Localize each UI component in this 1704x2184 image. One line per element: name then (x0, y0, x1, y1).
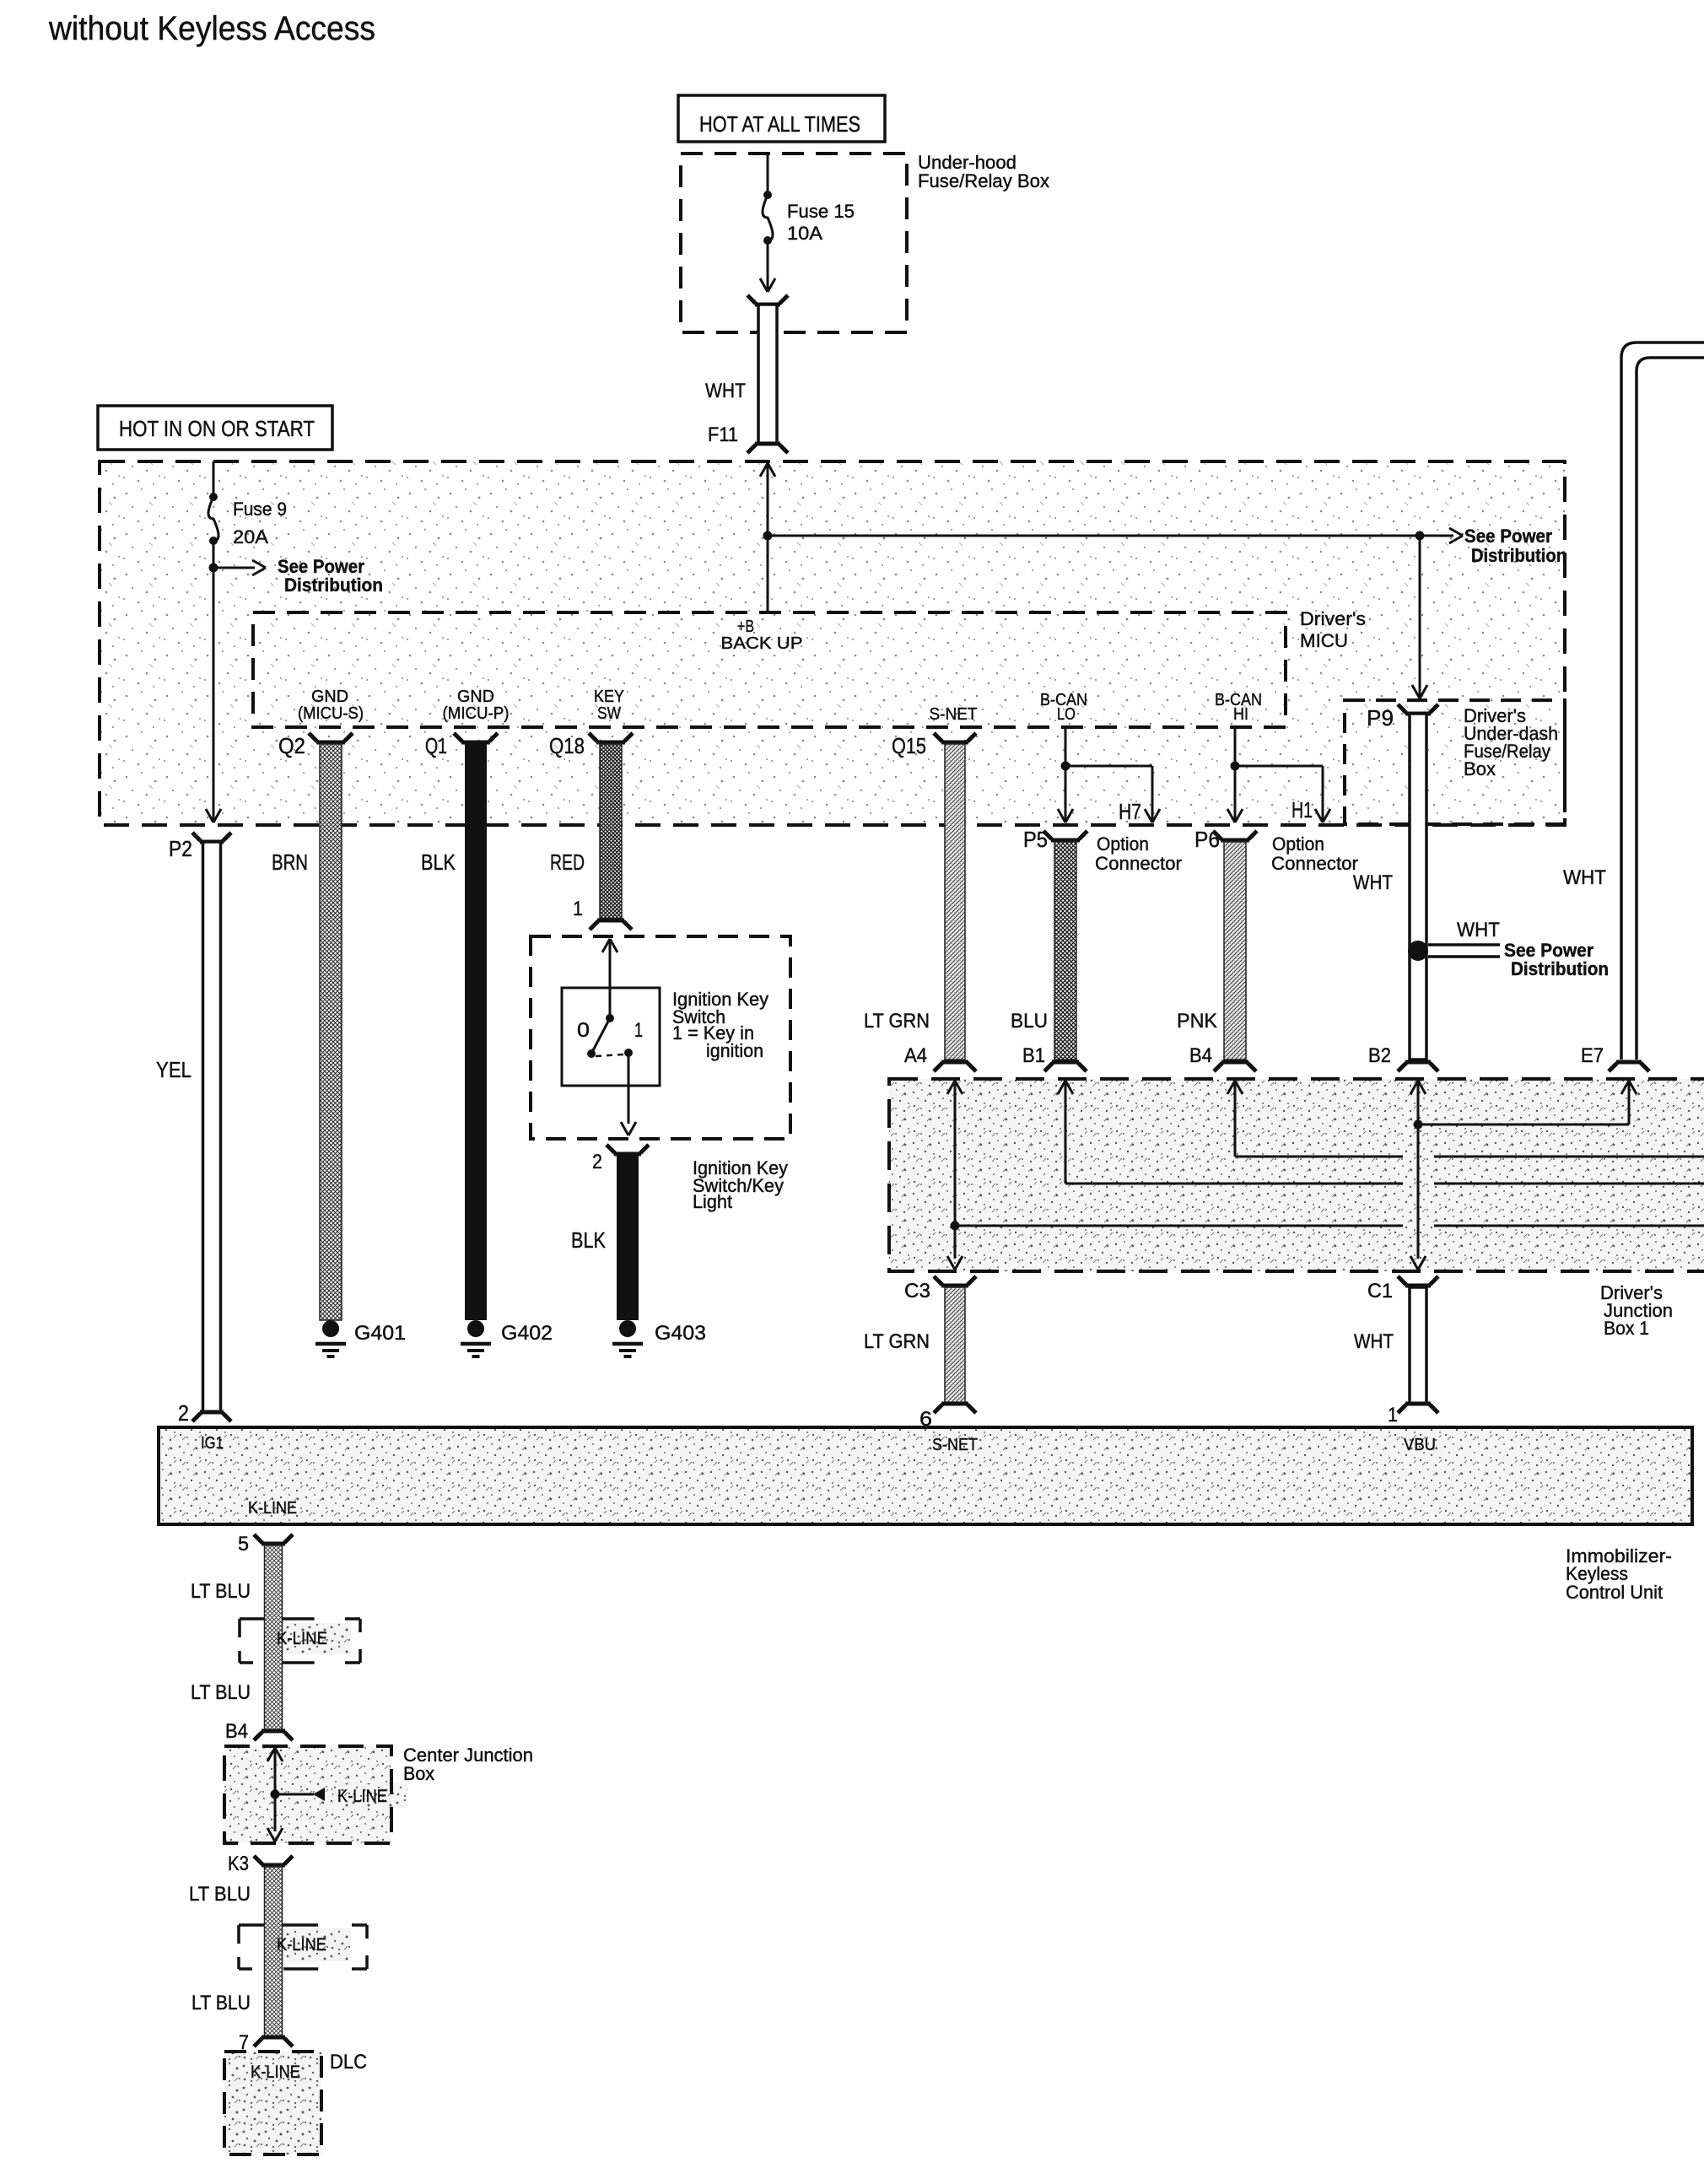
svg-text:C1: C1 (1367, 1280, 1393, 1302)
svg-text:LT GRN: LT GRN (864, 1330, 930, 1353)
svg-text:Q15: Q15 (892, 733, 926, 758)
svg-text:Distribution: Distribution (1511, 958, 1609, 979)
svg-text:YEL: YEL (156, 1057, 191, 1082)
svg-text:(MICU-S): (MICU-S) (298, 704, 364, 723)
svg-text:DLC: DLC (330, 2051, 367, 2073)
svg-text:Connector: Connector (1271, 853, 1358, 874)
svg-text:G401: G401 (354, 1322, 406, 1345)
svg-text:LT BLU: LT BLU (191, 1681, 251, 1704)
svg-text:Box 1: Box 1 (1604, 1318, 1649, 1339)
svg-text:MICU: MICU (1300, 630, 1348, 651)
svg-text:LT GRN: LT GRN (864, 1010, 930, 1033)
svg-text:KEY: KEY (594, 688, 624, 706)
svg-text:LT BLU: LT BLU (191, 1992, 251, 2014)
svg-text:HOT AT ALL TIMES: HOT AT ALL TIMES (699, 111, 860, 137)
svg-text:GND: GND (457, 688, 494, 706)
svg-text:P9: P9 (1367, 705, 1394, 731)
svg-text:0: 0 (577, 1019, 590, 1042)
svg-text:G403: G403 (655, 1322, 706, 1345)
svg-text:Driver's: Driver's (1300, 608, 1366, 629)
svg-text:BLK: BLK (421, 849, 456, 875)
svg-text:See Power: See Power (1464, 526, 1552, 547)
svg-text:B2: B2 (1368, 1044, 1391, 1067)
svg-text:1: 1 (1388, 1404, 1398, 1426)
svg-text:GND: GND (311, 688, 348, 706)
svg-text:LT BLU: LT BLU (189, 1883, 251, 1906)
svg-text:6: 6 (919, 1408, 932, 1431)
svg-text:Box: Box (1464, 758, 1496, 779)
svg-text:2: 2 (178, 1400, 189, 1426)
svg-text:IG1: IG1 (201, 1434, 224, 1453)
svg-text:WHT: WHT (1353, 871, 1393, 894)
svg-text:Fuse 9: Fuse 9 (233, 499, 287, 520)
svg-text:WHT: WHT (705, 380, 746, 402)
svg-text:WHT: WHT (1354, 1330, 1394, 1353)
svg-text:Distribution: Distribution (1471, 545, 1566, 566)
svg-text:Option: Option (1097, 833, 1149, 855)
svg-text:ignition: ignition (706, 1040, 763, 1061)
svg-text:H1: H1 (1291, 797, 1313, 822)
svg-text:Light: Light (693, 1191, 732, 1212)
svg-text:K-LINE: K-LINE (251, 2063, 300, 2082)
svg-text:1: 1 (634, 1019, 643, 1042)
svg-text:Box: Box (403, 1763, 434, 1784)
svg-text:without Keyless Access: without Keyless Access (48, 10, 375, 47)
svg-text:Control Unit: Control Unit (1566, 1582, 1663, 1603)
svg-text:Distribution: Distribution (284, 574, 383, 596)
svg-text:1: 1 (573, 898, 583, 920)
svg-text:K-LINE: K-LINE (277, 1935, 326, 1955)
svg-text:K3: K3 (228, 1852, 249, 1875)
svg-text:WHT: WHT (1563, 866, 1606, 889)
svg-text:(MICU-P): (MICU-P) (443, 704, 510, 723)
svg-text:P6: P6 (1194, 827, 1220, 852)
svg-text:5: 5 (238, 1533, 249, 1556)
svg-text:K-LINE: K-LINE (248, 1499, 297, 1518)
svg-text:E7: E7 (1581, 1044, 1604, 1067)
svg-text:VBU: VBU (1404, 1436, 1436, 1454)
svg-text:Option: Option (1272, 833, 1324, 855)
svg-text:B4: B4 (1189, 1044, 1212, 1067)
svg-text:K-LINE: K-LINE (337, 1787, 387, 1806)
svg-text:HI: HI (1233, 705, 1248, 724)
svg-text:P2: P2 (169, 836, 192, 861)
svg-text:Q18: Q18 (549, 733, 585, 758)
svg-text:Q1: Q1 (425, 733, 447, 758)
svg-text:G402: G402 (501, 1322, 553, 1345)
svg-text:RED: RED (550, 849, 585, 875)
svg-text:K-LINE: K-LINE (277, 1629, 327, 1648)
svg-text:A4: A4 (904, 1044, 927, 1067)
svg-text:BLU: BLU (1011, 1010, 1048, 1033)
svg-text:LO: LO (1057, 705, 1076, 724)
svg-text:HOT IN ON OR START: HOT IN ON OR START (119, 416, 315, 441)
svg-text:7: 7 (239, 2031, 249, 2054)
svg-text:Q2: Q2 (278, 733, 305, 758)
svg-text:+B: +B (737, 617, 754, 636)
svg-text:LT BLU: LT BLU (191, 1580, 251, 1603)
svg-text:2: 2 (592, 1151, 602, 1173)
svg-text:BACK UP: BACK UP (721, 634, 803, 653)
svg-text:BLK: BLK (571, 1227, 607, 1253)
svg-text:Connector: Connector (1095, 853, 1182, 874)
svg-text:WHT: WHT (1457, 919, 1500, 941)
svg-text:C3: C3 (904, 1280, 930, 1302)
svg-text:10A: 10A (787, 223, 822, 244)
svg-text:Fuse/Relay Box: Fuse/Relay Box (918, 170, 1049, 191)
svg-text:20A: 20A (233, 526, 268, 547)
svg-text:B4: B4 (225, 1720, 248, 1743)
svg-text:S-NET: S-NET (932, 1436, 978, 1454)
svg-text:BRN: BRN (272, 849, 308, 875)
svg-text:F11: F11 (708, 423, 738, 446)
svg-text:S-NET: S-NET (930, 705, 978, 724)
svg-text:B1: B1 (1022, 1044, 1045, 1067)
svg-text:Fuse 15: Fuse 15 (787, 201, 855, 222)
svg-text:PNK: PNK (1177, 1010, 1217, 1033)
svg-text:H7: H7 (1119, 799, 1141, 824)
svg-text:SW: SW (597, 704, 621, 723)
